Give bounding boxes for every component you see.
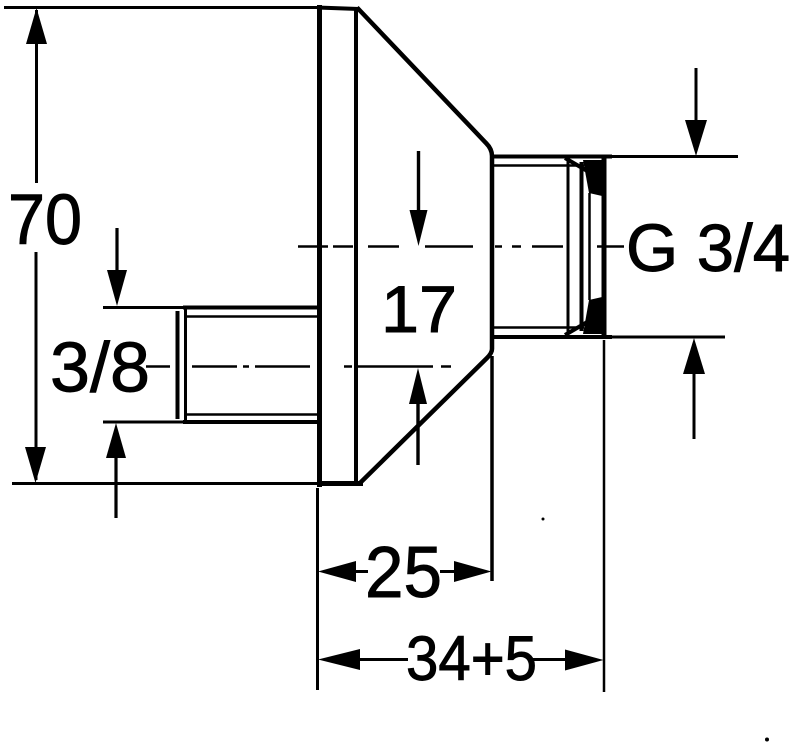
bottom extension line from flange bottom to 70 dimension [12, 482, 317, 485]
3/8 lower arrowhead (up) [106, 423, 126, 458]
70 dimension line lower segment [35, 252, 38, 480]
svg-text:17: 17 [381, 272, 457, 346]
dust speck near cone [542, 518, 545, 521]
right pipe incomplete-thread wedge bottom (black) [583, 296, 607, 334]
centerline of right pipe (dash-dot) [298, 245, 624, 248]
25 dimension line left stub [356, 570, 368, 573]
left pipe end inner vertical [184, 308, 187, 422]
G3/4 upper arrow tail [695, 68, 698, 122]
right pipe bottom chamfer slant [565, 321, 589, 335]
left pipe inner top line [186, 315, 319, 318]
34+5 right arrowhead [565, 650, 604, 671]
svg-text:34+5: 34+5 [406, 624, 537, 694]
17 upper arrowhead (down) [410, 210, 428, 246]
svg-text:G 3/4: G 3/4 [626, 211, 790, 286]
extension line below cone right edge [490, 356, 494, 581]
G3/4 lower arrow tail [693, 372, 696, 439]
left pipe outer bottom line + extension to 3/8 arrow [103, 421, 183, 424]
17 lower arrow tail [416, 404, 419, 465]
svg-text:25: 25 [365, 533, 442, 613]
3/8 lower arrow tail [114, 454, 117, 518]
70 arrowhead up [26, 8, 47, 44]
cone outline (top slope, right edge, bottom slope) [357, 8, 492, 485]
17 lower arrowhead (up) [409, 368, 427, 404]
top extension line from flange top to 70 dimension [4, 6, 318, 9]
34+5 left arrowhead [318, 649, 360, 670]
G3/4 lower arrowhead (up) [683, 338, 705, 374]
17 upper arrow tail [417, 151, 420, 212]
right pipe incomplete-thread wedge top (black) [583, 160, 607, 197]
dust speck bottom right [765, 738, 769, 742]
right pipe chamfer face line [588, 193, 591, 300]
left pipe inner bottom line [186, 413, 319, 416]
34+5 dimension line left stub [358, 658, 408, 661]
right pipe thread minor line top [493, 164, 584, 167]
flange top edge [317, 8, 359, 10]
flange bottom edge [317, 481, 363, 486]
svg-text:3/8: 3/8 [50, 328, 150, 407]
25 dimension line right stub [440, 570, 455, 573]
flange right edge [354, 8, 358, 483]
G3/4 upper arrowhead (down) [685, 120, 707, 156]
3/8 upper arrowhead (down) [107, 270, 127, 306]
right pipe top chamfer slant [565, 158, 589, 172]
extension line below pipe end face [603, 340, 606, 692]
centerline of left pipe (dash-dot) [146, 365, 451, 368]
right pipe chamfer vertical [580, 162, 584, 331]
left pipe outer top line + extension to 3/8 arrow [103, 306, 183, 309]
25 right arrowhead [454, 561, 492, 582]
right pipe thread minor line bottom [493, 326, 584, 329]
right pipe end face line [602, 157, 607, 338]
extension line below flange left edge [316, 488, 319, 690]
25 left arrowhead [318, 561, 356, 582]
70 dimension line upper segment [35, 10, 38, 183]
34+5 dimension line right stub [533, 658, 567, 661]
right pipe outer bottom line + extension to arrow [490, 335, 612, 339]
flange left edge [317, 5, 322, 487]
right pipe outer top line + extension to arrow [490, 155, 612, 159]
70 arrowhead down [25, 447, 46, 483]
svg-text:70: 70 [8, 180, 82, 260]
right pipe thread end vertical [567, 159, 570, 334]
3/8 upper arrow tail [115, 228, 118, 274]
left pipe end outer vertical [176, 311, 180, 419]
